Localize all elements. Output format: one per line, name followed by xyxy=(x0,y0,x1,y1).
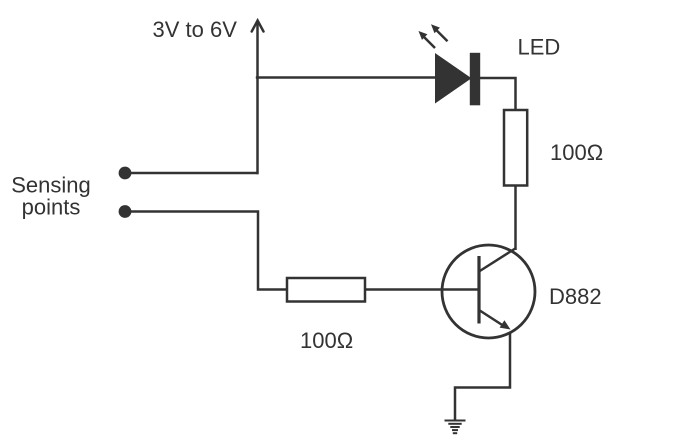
transistor Q1 emitter arrowhead xyxy=(500,320,511,329)
LED light arrow 1 xyxy=(419,31,436,48)
transistor Q1 collector diagonal xyxy=(479,248,516,272)
sensing point node 1 (dot) xyxy=(119,167,132,180)
transistor Q1 base bar xyxy=(477,256,480,324)
svg-text:D882: D882 xyxy=(549,284,602,309)
wire emitter to ground xyxy=(455,332,510,421)
wire supply vertical xyxy=(256,22,259,175)
LED light arrow 2 xyxy=(431,24,448,41)
wire LED cathode to resistor R1 xyxy=(480,78,516,111)
wire base (R2 to base bar) xyxy=(365,288,479,291)
transistor Q1 emitter diagonal xyxy=(479,310,503,326)
wire R1 to collector xyxy=(514,186,517,251)
svg-text:LED: LED xyxy=(518,35,561,60)
wire supply to LED anode xyxy=(256,76,436,79)
transistor Q1 circle xyxy=(442,245,535,338)
resistor R1 (100 ohm, vertical) xyxy=(504,110,527,186)
ground symbol xyxy=(445,421,466,434)
svg-text:100Ω: 100Ω xyxy=(550,140,603,165)
svg-text:100Ω: 100Ω xyxy=(300,328,353,353)
svg-text:points: points xyxy=(22,195,81,220)
supply arrow head (open chevron) xyxy=(252,21,264,32)
wire sensing point 1 to supply line xyxy=(125,172,258,175)
sensing point node 2 (dot) xyxy=(119,205,132,218)
resistor R2 (100 ohm, horizontal) xyxy=(287,278,365,302)
svg-text:3V to 6V: 3V to 6V xyxy=(153,17,238,42)
wire sensing point 2 to resistor R2 xyxy=(125,212,288,290)
LED D1 anode triangle xyxy=(435,53,472,104)
LED D1 cathode bar xyxy=(470,53,480,106)
